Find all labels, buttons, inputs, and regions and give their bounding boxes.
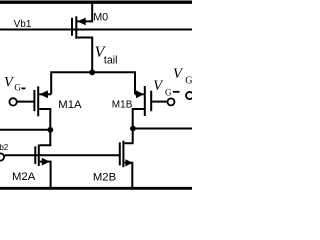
junction dot right output node <box>130 126 136 132</box>
wire M1A drain segment <box>39 109 50 130</box>
svg-text:Vb1: Vb1 <box>14 19 32 30</box>
transistor M0 channel bar <box>75 16 77 39</box>
wire tail node horizontal <box>51 72 135 94</box>
terminal circle Vb2 (cut at left edge) <box>0 153 4 160</box>
transistor M1A channel bar <box>37 86 39 116</box>
wire M1B source segment <box>135 93 144 95</box>
svg-text:M2A: M2A <box>12 171 36 183</box>
wire M1A source segment <box>39 93 51 95</box>
wire left output <box>0 129 50 131</box>
arrow M0 source (PMOS) <box>77 18 85 26</box>
svg-text:G: G <box>14 83 21 93</box>
wire top supply rail <box>0 1 192 4</box>
arrow M2A source (NMOS) <box>42 158 50 166</box>
junction dot left output node <box>47 127 53 133</box>
wire M0 drain segment <box>77 38 92 73</box>
transistor M2B channel bar <box>122 141 124 168</box>
terminal circle VG- left input <box>9 98 16 105</box>
wire M2A source segment <box>40 162 51 189</box>
transistor M0 gate bar <box>71 18 73 36</box>
arrow M1B source (PMOS) <box>136 90 144 98</box>
wire Vb2 bias line <box>5 154 120 156</box>
transistor M2A channel bar <box>38 144 40 166</box>
transistor M2A gate bar <box>34 146 36 164</box>
wire Vb1 bias line <box>0 29 192 31</box>
wire M2B source segment <box>124 163 132 189</box>
wire M1B drain segment <box>133 109 144 129</box>
svg-text:tail: tail <box>104 55 118 67</box>
svg-text:G: G <box>165 87 172 97</box>
terminal circle right edge (cut) <box>186 92 193 99</box>
terminal circle M1B gate input <box>168 98 175 105</box>
transistor M2B gate bar <box>119 142 121 165</box>
wire M1B gate lead <box>152 101 167 103</box>
svg-text:M1A: M1A <box>58 99 82 111</box>
wire right output <box>133 128 192 130</box>
wire M1A gate lead <box>17 101 33 103</box>
arrow M2B source (NMOS) <box>125 159 132 166</box>
wire bottom supply rail <box>0 187 192 190</box>
junction dot tail node <box>89 69 95 75</box>
wire M2A drain segment <box>40 130 51 146</box>
svg-text:M0: M0 <box>93 12 108 24</box>
svg-text:M1B: M1B <box>112 100 133 111</box>
svg-text:G: G <box>185 75 192 86</box>
svg-text:M2B: M2B <box>93 171 116 183</box>
transistor M1A gate bar <box>33 90 35 111</box>
transistor M1B channel bar <box>144 86 146 116</box>
wire M0 source segment <box>77 2 92 21</box>
arrow M1A source (PMOS) <box>40 90 48 98</box>
transistor M1B gate bar <box>150 91 152 112</box>
svg-text:Vb2: Vb2 <box>0 143 9 152</box>
wire M2B drain segment <box>124 129 132 144</box>
